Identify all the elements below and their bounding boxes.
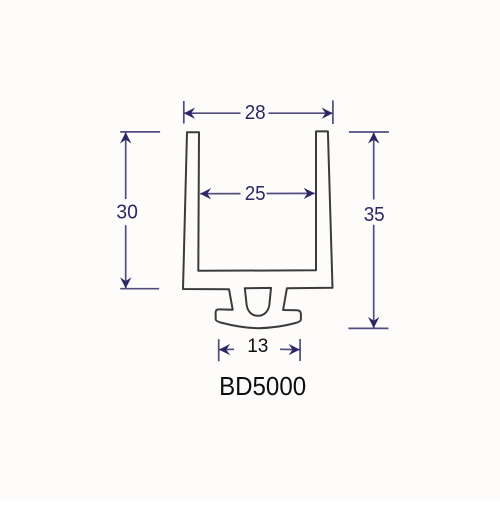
arrow up of 30 (120, 132, 131, 143)
ext line right (332, 100, 334, 124)
dimension 13 (219, 339, 300, 361)
svg-text:25: 25 (245, 183, 266, 205)
dimension 28 (184, 100, 333, 124)
ext line bottom (120, 288, 159, 290)
svg-text:30: 30 (116, 201, 138, 223)
svg-text:35: 35 (364, 204, 385, 226)
ext line left (183, 101, 185, 124)
arrow tail right (280, 348, 300, 350)
arrow right of 28 (322, 108, 333, 119)
arrow down of 35 (368, 317, 379, 328)
svg-text:13: 13 (247, 336, 268, 357)
arrow up of 35 (368, 132, 379, 143)
dimension 30 (120, 132, 160, 289)
svg-text:BD5000: BD5000 (219, 371, 306, 401)
svg-text:28: 28 (245, 102, 266, 124)
dim line upper (125, 133, 127, 199)
arrow left of 25 (200, 188, 211, 199)
arrow left of 13 (219, 344, 230, 355)
dimension 25 (200, 192, 314, 194)
arrow down of 30 (120, 277, 131, 288)
profile outline BD5000 channel (183, 131, 333, 328)
dim line right part (269, 112, 333, 114)
ext line top (120, 131, 160, 133)
arrow right of 13 (289, 344, 300, 355)
ext line left (218, 339, 220, 361)
dim line left part (184, 112, 240, 114)
notch inside foot (245, 288, 271, 316)
ext line right (299, 339, 301, 361)
arrow right of 25 (304, 188, 315, 199)
arrow left of 28 (184, 108, 195, 119)
dim line lower (125, 225, 127, 288)
dimension 35 (348, 132, 389, 328)
arrow tail left (219, 348, 234, 350)
